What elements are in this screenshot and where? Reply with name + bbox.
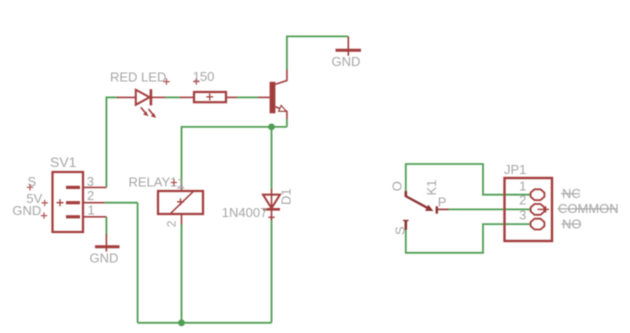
wire: left vertical rail down xyxy=(137,203,139,323)
svg-text:1N4007: 1N4007 xyxy=(222,205,268,220)
resistor R 150 xyxy=(180,92,238,102)
wire segment: SV1 pin3 to LED anode xyxy=(106,96,119,98)
pin name O of K1 (rotated) xyxy=(390,181,405,191)
svg-text:2: 2 xyxy=(87,188,94,203)
pin number 1 of JP1 xyxy=(519,178,526,193)
origin cross of label 5V xyxy=(42,200,48,206)
pin number 3 of JP1 xyxy=(519,207,526,222)
net label NO xyxy=(561,216,582,231)
wire segment: LED cathode to resistor xyxy=(165,96,180,98)
wire: SV1 pin2 to left vertical rail xyxy=(105,202,138,204)
wire net: collector to GND (up and right) xyxy=(287,36,348,70)
svg-text:SV1: SV1 xyxy=(50,154,77,170)
pin number 1 of relay coil xyxy=(177,176,184,190)
wire: D1 top vertical xyxy=(271,127,273,190)
label GND (lower ground) xyxy=(90,250,119,265)
ground symbol at collector net xyxy=(336,36,362,55)
pin number 2 of relay coil (rotated) xyxy=(165,220,179,227)
label JP1 xyxy=(504,162,526,177)
name label K1 (rotated) xyxy=(424,180,439,196)
pin number 3 of SV1 xyxy=(87,174,94,189)
svg-text:JP1: JP1 xyxy=(504,162,526,177)
diode D1 1N4007 xyxy=(263,189,280,221)
svg-text:GND: GND xyxy=(332,54,361,69)
pin name P of K1 xyxy=(438,194,447,209)
wire segment: resistor to transistor base xyxy=(237,96,259,98)
wire: bottom rail xyxy=(138,322,272,324)
svg-text:D1: D1 xyxy=(279,188,294,205)
pin name S of SV1 xyxy=(28,174,37,189)
name label D1 (rotated) xyxy=(279,188,294,205)
label RED LED xyxy=(110,70,166,85)
pin number 2 of JP1 xyxy=(519,193,526,208)
svg-text:S: S xyxy=(393,226,408,235)
origin cross of label S xyxy=(27,184,33,190)
net label COMMON xyxy=(558,201,619,216)
wire net: emitter / relay pin1 / D1 anode horizontal xyxy=(182,119,287,187)
svg-text:RELAY1: RELAY1 xyxy=(129,174,178,189)
svg-text:3: 3 xyxy=(519,207,526,222)
junction dot on bottom rail at relay pin2 xyxy=(178,319,185,326)
svg-text:3: 3 xyxy=(87,174,94,189)
origin cross of RED LED label xyxy=(163,78,169,84)
pin name GND of SV1 xyxy=(12,203,41,218)
wire net S: vertical from LED line down to SV1 pin 3 xyxy=(105,97,107,187)
connector JP1 xyxy=(505,178,553,241)
wire: D1 bottom vertical down to bottom rail xyxy=(271,219,273,323)
svg-text:O: O xyxy=(390,181,405,191)
value label 1N4007 xyxy=(222,205,268,220)
transistor Q1 (NPN) xyxy=(258,70,287,120)
label GND (upper ground) xyxy=(332,54,361,69)
wire: relay pin2 down to bottom rail xyxy=(181,224,183,323)
origin cross of RELAY1 label xyxy=(171,179,177,185)
relay contact K1 xyxy=(403,191,449,230)
net label NC xyxy=(561,186,581,201)
svg-text:1: 1 xyxy=(519,178,526,193)
svg-text:2: 2 xyxy=(165,220,179,227)
svg-text:GND: GND xyxy=(90,250,119,265)
label RELAY1 xyxy=(129,174,178,189)
junction dot at emitter/D1/relay node xyxy=(268,124,275,131)
pin number 2 of SV1 xyxy=(87,188,94,203)
LED D (RED LED) xyxy=(117,89,166,117)
svg-text:1: 1 xyxy=(88,203,95,218)
wire: K1 pole P to JP1 pin2 xyxy=(448,208,532,210)
origin cross of 150 label xyxy=(193,78,199,84)
value label 150 xyxy=(193,69,215,84)
pin name S of K1 (rotated) xyxy=(393,226,408,235)
connector SV1 xyxy=(53,172,107,232)
relay coil K1 xyxy=(158,186,203,225)
ground symbol under SV1 pin1 xyxy=(95,234,120,252)
svg-text:P: P xyxy=(438,194,447,209)
wire: SV1 pin1 to GND symbol xyxy=(105,217,107,235)
svg-text:2: 2 xyxy=(519,193,526,208)
origin cross of label GND xyxy=(41,212,47,218)
svg-text:K1: K1 xyxy=(424,180,439,196)
wire: K1 contact S to JP1 pin3 xyxy=(406,224,531,253)
pin name 5V of SV1 xyxy=(26,191,42,206)
wire: K1 contact O to JP1 pin1 xyxy=(406,164,531,195)
svg-text:GND: GND xyxy=(12,203,41,218)
svg-text:RED LED: RED LED xyxy=(110,70,166,85)
label SV1 name xyxy=(50,154,77,170)
pin number 1 of SV1 xyxy=(88,203,95,218)
